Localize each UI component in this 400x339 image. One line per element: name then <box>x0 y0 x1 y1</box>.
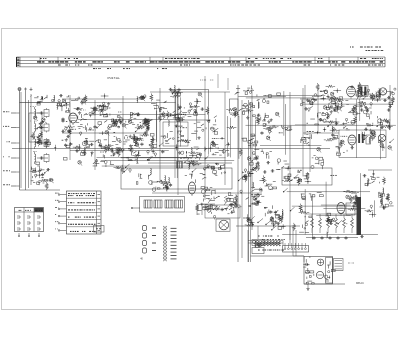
svg-text:KB6-16: KB6-16 <box>356 283 364 285</box>
svg-text:PU171A-: PU171A- <box>108 76 121 80</box>
